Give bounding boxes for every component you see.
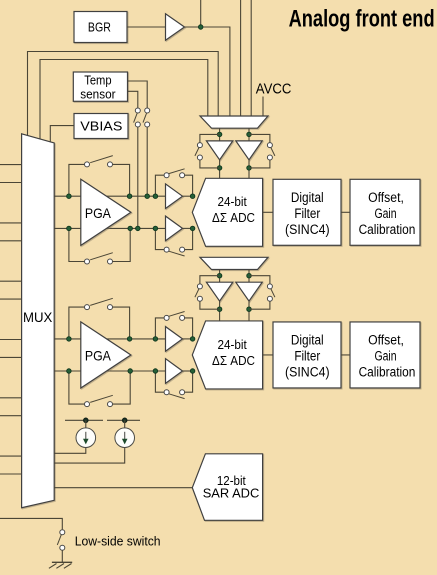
node refbuf2 right input xyxy=(247,273,252,278)
wire analog input AIN0 to MUX xyxy=(0,164,22,166)
reference buffer 1 left (down triangle) xyxy=(206,141,232,160)
digital filter block 2 xyxy=(273,322,341,388)
wire PGA1 negative rail xyxy=(54,227,165,229)
svg-text:24-bit: 24-bit xyxy=(217,337,247,352)
amplifier PGA1 xyxy=(81,179,131,245)
ground symbol xyxy=(52,561,72,563)
node temp sensor tap on negative rail xyxy=(136,226,141,231)
current source IDAC1 xyxy=(76,428,96,448)
switch S2a (PGA2 top bypass) xyxy=(85,305,90,310)
svg-text:BGR: BGR xyxy=(88,19,111,34)
reference mux 1 (trapezoid) xyxy=(200,116,268,128)
wire IDAC1 return to MUX xyxy=(54,448,86,454)
node IDAC2 junction xyxy=(122,418,127,423)
wire analog input AIN9 to MUX xyxy=(0,415,22,417)
wire refbuf2 right output to ADC xyxy=(248,301,250,321)
reference buffer 1 right (down triangle) xyxy=(236,141,262,160)
wire refbuf1 right bypass bottom xyxy=(249,160,270,168)
wire buffer1a bypass loop xyxy=(155,175,164,196)
wire refmux2 to left ref buffer xyxy=(219,270,221,283)
buffer amp 1a xyxy=(166,184,183,209)
svg-text:sensor: sensor xyxy=(80,87,116,102)
switch S2c (buffer2a bypass) xyxy=(164,315,169,320)
wire analog input AIN8 to MUX xyxy=(0,397,22,399)
svg-text:Filter: Filter xyxy=(294,206,320,221)
wire PGA2 top bypass loop right xyxy=(113,307,130,339)
svg-text:Temp: Temp xyxy=(84,72,111,87)
wire buffer1b bypass loop right xyxy=(185,228,193,249)
wire refbuf1 left bypass bottom xyxy=(200,160,220,168)
bias generator VBIAS xyxy=(74,114,128,139)
switch S1c (buffer1a bypass) xyxy=(164,173,169,178)
wire buffer1a bypass loop right xyxy=(185,175,193,196)
svg-text:Analog front end: Analog front end xyxy=(289,6,435,33)
svg-text:Offset,: Offset, xyxy=(368,190,404,205)
wire reference rail 1 (outer loop) xyxy=(28,52,219,136)
wire refbuf2 left bypass xyxy=(200,276,220,284)
node J1 (U1 output junction) xyxy=(198,25,203,30)
wire analog input AIN2 to MUX xyxy=(0,222,22,224)
switch S2e (refbuf left) xyxy=(197,284,202,289)
node PGA1 out- junction xyxy=(128,226,133,231)
wire analog input AIN4 to MUX xyxy=(0,280,22,282)
wire analog input AIN11 to MUX xyxy=(0,473,22,475)
wire reference rail 2 (inner loop) xyxy=(40,60,208,140)
svg-text:(SINC4): (SINC4) xyxy=(285,364,330,379)
switch S1e (refbuf left) xyxy=(197,143,202,148)
svg-text:VBIAS: VBIAS xyxy=(80,119,122,134)
node PGA1 out+ junction xyxy=(127,194,132,199)
current source IDAC2 xyxy=(115,428,135,448)
wire buffer2a output to ADC xyxy=(183,338,194,340)
svg-text:(SINC4): (SINC4) xyxy=(285,222,330,237)
wire analog input AIN10 to MUX xyxy=(0,455,22,457)
switch S1d (buffer1b bypass) xyxy=(164,247,169,252)
wire BGR output to buffer U1 xyxy=(127,26,166,28)
svg-text:Filter: Filter xyxy=(294,349,320,364)
wire refbuf1 left output to ADC xyxy=(219,160,221,179)
wire filter1 to calibration xyxy=(341,211,350,213)
buffer amp 2b xyxy=(166,359,183,384)
node refbuf2 right output xyxy=(247,307,252,312)
wire PGA2 bottom bypass loop right xyxy=(113,371,131,404)
switch S2f (refbuf right) xyxy=(267,284,272,289)
wire buffer2a bypass loop xyxy=(155,318,164,339)
node buffer2b input junction xyxy=(153,369,158,374)
voltage reference BGR xyxy=(74,12,127,43)
svg-text:Low-side switch: Low-side switch xyxy=(75,533,161,548)
wire refbuf2 left output to ADC xyxy=(219,301,221,321)
switch S1 (temp sensor N) xyxy=(135,108,140,113)
node PGA2 in- junction xyxy=(67,369,72,374)
wire excitation rail 2 xyxy=(107,419,140,421)
wire to low-side switch xyxy=(0,518,62,529)
wire PGA1 top bypass loop right xyxy=(113,164,130,196)
wire IDAC1 top stub xyxy=(85,420,87,428)
wire analog input AIN5 to MUX xyxy=(0,298,22,300)
svg-text:Gain: Gain xyxy=(374,349,396,364)
node PGA2 out+ junction xyxy=(127,337,132,342)
12-bit SAR ADC xyxy=(192,454,262,521)
node refbuf1 right input xyxy=(247,132,252,137)
wire refbuf1 right output to ADC xyxy=(248,160,250,179)
wire excitation rail 1 xyxy=(65,419,103,421)
switch S-LS (low-side switch) xyxy=(60,530,65,535)
node ADC2 in- junction xyxy=(190,369,195,374)
wire refbuf2 right bypass bottom xyxy=(249,301,270,309)
wire ADC2 to digital filter xyxy=(263,354,273,356)
wire PGA2 bottom bypass loop xyxy=(69,371,84,404)
wire refbuf2 right bypass xyxy=(249,276,270,284)
node temp sensor tap on positive rail xyxy=(145,194,150,199)
wire PGA2 positive rail xyxy=(54,338,165,340)
wire analog input AIN7 to MUX xyxy=(0,356,22,358)
svg-text:Gain: Gain xyxy=(374,206,396,221)
wire S1 to PGA1 negative rail xyxy=(137,127,139,228)
svg-text:AVCC: AVCC xyxy=(256,81,292,98)
24-bit delta-sigma ADC 1 xyxy=(192,178,262,246)
wire analog input AIN1 to MUX xyxy=(0,182,22,184)
wire buffer2b bypass loop right xyxy=(185,371,193,392)
reference buffer 2 left (down triangle) xyxy=(206,282,232,301)
svg-text:24-bit: 24-bit xyxy=(217,194,247,209)
svg-text:Offset,: Offset, xyxy=(368,333,404,348)
wire refbuf1 right bypass xyxy=(249,134,270,142)
wire PGA1 top bypass loop xyxy=(69,164,84,196)
IDAC2 arrow xyxy=(124,432,126,440)
wire buffer1b output to ADC xyxy=(183,227,194,229)
wire analog input AIN3 to MUX xyxy=(0,240,22,242)
wire node to top edge xyxy=(200,0,202,27)
node PGA1 in- junction xyxy=(67,226,72,231)
node refbuf2 left input xyxy=(217,273,222,278)
wire MUX to SAR ADC xyxy=(54,487,192,489)
node IDAC1 junction xyxy=(84,418,89,423)
wire refmux1 to left ref buffer xyxy=(219,128,221,141)
switch S2 (temp sensor P) xyxy=(145,108,150,113)
switch S1f (refbuf right) xyxy=(267,143,272,148)
node PGA1 in+ junction xyxy=(67,194,72,199)
wire AVCC stub to reference mux xyxy=(262,97,264,117)
switch S1b (PGA1 bottom bypass) xyxy=(85,259,90,264)
wire VBIAS output to MUX xyxy=(50,126,74,142)
node ADC1 in+ junction xyxy=(190,194,195,199)
svg-text:ΔΣ ADC: ΔΣ ADC xyxy=(212,210,255,225)
digital filter block 1 xyxy=(273,179,341,245)
wire S2 to PGA1 positive rail xyxy=(146,127,148,196)
wire refbuf2 left bypass bottom xyxy=(200,301,220,309)
wire refmux1 to right ref buffer xyxy=(248,128,250,141)
svg-text:SAR ADC: SAR ADC xyxy=(203,486,260,501)
wire supply line A (from top) xyxy=(240,0,242,116)
wire IDAC2 return to MUX xyxy=(54,448,125,464)
node buffer2a input junction xyxy=(153,337,158,342)
node refbuf2 left output xyxy=(217,307,222,312)
switch S1a (PGA1 top bypass) xyxy=(85,162,90,167)
reference mux 2 (trapezoid) xyxy=(200,257,268,269)
wire refmux2 to right ref buffer xyxy=(248,270,250,283)
wire PGA2 negative rail xyxy=(54,370,165,372)
reference buffer 2 right (down triangle) xyxy=(236,282,262,301)
wire buffer2b output to ADC xyxy=(183,370,194,372)
svg-text:PGA: PGA xyxy=(85,347,112,363)
input multiplexer MUX xyxy=(22,134,55,508)
node refbuf1 right output xyxy=(247,166,252,171)
switch S2d (buffer2b bypass) xyxy=(164,390,169,395)
wire IDAC2 top stub xyxy=(124,420,126,428)
svg-text:Calibration: Calibration xyxy=(359,222,416,237)
wire buffer2a bypass loop right xyxy=(185,318,193,339)
wire buffer2b bypass loop xyxy=(155,371,164,392)
svg-text:Calibration: Calibration xyxy=(359,364,416,379)
offset gain calibration block 2 xyxy=(350,322,420,388)
wire temp sensor output P xyxy=(128,81,148,108)
wire analog input AIN6 to MUX xyxy=(0,339,22,341)
wire U1 output to AVCC mux xyxy=(185,27,230,116)
svg-text:ΔΣ ADC: ΔΣ ADC xyxy=(212,353,255,368)
temp sensor block xyxy=(73,72,127,101)
node ADC2 in+ junction xyxy=(190,337,195,342)
node PGA2 out- junction xyxy=(128,369,133,374)
wire temp sensor output N xyxy=(128,91,138,108)
wire ADC1 to digital filter xyxy=(263,211,273,213)
wire refbuf1 left bypass xyxy=(200,134,220,142)
wire PGA2 top bypass loop xyxy=(69,307,84,339)
wire buffer1b bypass loop xyxy=(155,228,164,249)
wire PGA1 bottom bypass loop right xyxy=(113,228,131,261)
wire PGA1 positive rail xyxy=(54,195,165,197)
wire supply line B (from top) xyxy=(250,0,252,116)
node refbuf1 left output xyxy=(217,166,222,171)
node refbuf1 left input xyxy=(217,132,222,137)
svg-text:PGA: PGA xyxy=(85,205,112,221)
op-amp buffer U1 (reference buffer) xyxy=(166,14,185,40)
wire filter2 to calibration xyxy=(341,354,350,356)
node ADC1 in- junction xyxy=(190,226,195,231)
svg-text:MUX: MUX xyxy=(23,310,52,325)
buffer amp 2a xyxy=(166,327,183,352)
IDAC1 arrow xyxy=(85,432,87,440)
amplifier PGA2 xyxy=(81,322,131,388)
switch S2b (PGA2 bottom bypass) xyxy=(85,402,90,407)
node PGA2 in+ junction xyxy=(67,337,72,342)
wire buffer1a output to ADC xyxy=(183,195,194,197)
buffer amp 1b xyxy=(166,216,183,241)
node buffer1b input junction xyxy=(153,226,158,231)
24-bit delta-sigma ADC 2 xyxy=(192,321,262,389)
svg-text:Digital: Digital xyxy=(291,190,324,205)
wire low-side switch to ground xyxy=(61,550,63,562)
offset gain calibration block 1 xyxy=(350,179,420,245)
svg-text:Digital: Digital xyxy=(291,333,324,348)
node buffer1a input junction xyxy=(153,194,158,199)
wire PGA1 bottom bypass loop xyxy=(69,228,84,261)
